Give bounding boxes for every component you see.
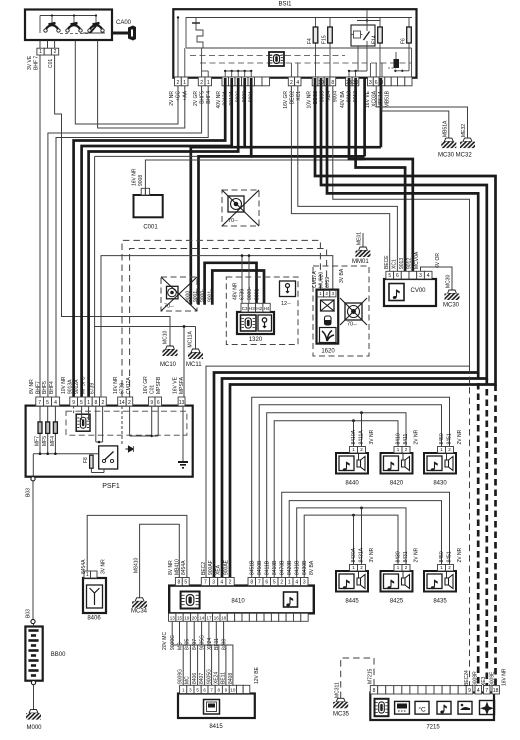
svg-text:8410A: 8410A	[351, 429, 357, 444]
svg-text:8430: 8430	[433, 481, 447, 487]
svg-text:BSI1: BSI1	[278, 2, 292, 8]
svg-text:8V NR: 8V NR	[29, 379, 35, 394]
unit 1320	[237, 312, 274, 334]
svg-text:18: 18	[221, 615, 227, 620]
svg-text:F4: F4	[307, 38, 313, 44]
wire +CC : CA00 to BSI1	[75, 41, 178, 124]
svg-text:2V NR: 2V NR	[457, 429, 463, 444]
svg-text:9000-: 9000-	[200, 289, 206, 302]
svg-text:7: 7	[258, 580, 261, 586]
svg-text:XC1: XC1	[296, 91, 302, 101]
svg-text:1: 1	[183, 80, 186, 86]
svg-text:70--: 70--	[347, 322, 357, 328]
fuse F14 in BSI1	[379, 18, 381, 49]
svg-text:2: 2	[200, 80, 203, 86]
svg-text:CA00: CA00	[116, 20, 132, 26]
svg-text:3: 3	[212, 580, 215, 586]
ground MC34	[135, 598, 144, 602]
svg-text:MPSFB: MPSFB	[156, 376, 162, 394]
svg-text:6V OR: 6V OR	[435, 253, 441, 268]
wire B03 PSF1 to battery BB00	[32, 481, 34, 620]
svg-text:M000: M000	[27, 725, 43, 731]
speaker 8440	[336, 453, 368, 474]
svg-text:6: 6	[396, 273, 399, 279]
svg-text:16V NR: 16V NR	[113, 376, 119, 394]
svg-text:8420B: 8420B	[287, 560, 293, 575]
wire 9000 continuation (thick)	[191, 78, 245, 305]
svg-text:12--: 12--	[281, 301, 291, 307]
svg-text:7215: 7215	[426, 725, 440, 731]
svg-text:1: 1	[39, 49, 42, 55]
8410 top pins mid	[201, 578, 209, 586]
svg-text:F8: F8	[83, 457, 89, 463]
svg-text:5: 5	[273, 580, 276, 586]
svg-text:XE3: XE3	[481, 676, 487, 686]
wires 8410 to 8415	[172, 621, 183, 685]
8410 bottom pins	[169, 613, 176, 621]
svg-text:BEC2: BEC2	[201, 562, 207, 575]
fuse MF7	[39, 406, 41, 454]
svg-text:9000: 9000	[186, 291, 192, 302]
svg-text:9008: 9008	[138, 175, 144, 186]
unit 1620	[317, 290, 339, 344]
svg-text:9001: 9001	[193, 291, 199, 302]
svg-text:2V NR: 2V NR	[169, 91, 175, 106]
svg-text:H4: H4	[264, 306, 270, 311]
svg-text:8450B: 8450B	[257, 560, 263, 575]
dashed wire M7215 to ground MC35	[341, 658, 374, 698]
svg-text:+CC: +CC	[176, 91, 182, 102]
wire 8430B to 8435 pin1	[289, 501, 441, 578]
svg-text:70--: 70--	[228, 218, 238, 224]
svg-text:BB00: BB00	[51, 652, 66, 658]
svg-text:2V NR: 2V NR	[457, 547, 463, 562]
svg-text:4: 4	[220, 580, 223, 586]
svg-text:4: 4	[477, 688, 480, 694]
speaker 8435	[424, 571, 456, 592]
svg-text:9001-: 9001-	[207, 289, 213, 302]
diode in PSF1	[125, 446, 133, 452]
dashed wire CM17A PSF1 to 1620	[122, 240, 320, 397]
car radio 8410	[169, 586, 314, 614]
svg-text:H2: H2	[256, 306, 262, 311]
display unit 8415	[178, 694, 255, 719]
svg-text:M8410: M8410	[133, 557, 139, 573]
svg-text:2: 2	[128, 400, 131, 406]
svg-text:8: 8	[177, 580, 180, 586]
svg-text:8410: 8410	[396, 433, 402, 444]
BSI1 pin group 16V VE	[368, 77, 374, 86]
svg-text:MPSFC: MPSFC	[81, 376, 87, 394]
svg-text:2: 2	[54, 49, 57, 55]
svg-text:16: 16	[214, 615, 220, 620]
svg-text:16V GR: 16V GR	[283, 91, 289, 109]
horn option box 70 left (crossed out)	[161, 277, 197, 311]
svg-text:8450: 8450	[439, 433, 445, 444]
wire 8450B to 8430 pin1	[259, 405, 441, 578]
svg-text:B03: B03	[26, 488, 32, 497]
connector box C001	[134, 195, 163, 217]
wire XC1 BSI1 to CV00 pin 6	[298, 86, 398, 271]
BSI1 pin group BHF	[198, 77, 205, 86]
svg-text:8411B: 8411B	[265, 560, 271, 575]
svg-text:10V NR: 10V NR	[307, 91, 313, 109]
svg-text:9: 9	[150, 400, 153, 406]
svg-text:F15: F15	[322, 35, 328, 44]
svg-text:6: 6	[375, 80, 378, 86]
wire 6739 PSF1 to 1620 and 1320	[101, 256, 333, 397]
relay in BSI1	[351, 25, 375, 46]
svg-text:9: 9	[72, 400, 75, 406]
horn option box 70 upper (crossed out)	[222, 190, 259, 226]
wire BHF4 BSI1 to PSF1 pin 4	[56, 86, 208, 397]
BSI1 internal link symbol	[196, 18, 203, 49]
svg-text:8440: 8440	[345, 481, 359, 487]
wire 9013 BSI1 to CV00 (thick)	[349, 78, 413, 271]
svg-text:MC: MC	[185, 676, 191, 684]
svg-text:MC30 MC32: MC30 MC32	[438, 153, 472, 159]
svg-text:5: 5	[184, 580, 187, 586]
ignition switch CA00	[25, 10, 112, 41]
wire 8420B to 8425/8445 pin1	[304, 515, 398, 577]
svg-text:48V NR: 48V NR	[233, 282, 239, 300]
stub wires 9000- 9001- to 1320	[205, 263, 257, 305]
7215 pin row	[370, 686, 377, 694]
8410 music note symbol	[284, 592, 298, 607]
ground MC30 top	[444, 138, 453, 142]
svg-text:8450: 8450	[439, 551, 445, 562]
BSI1 internal pin wires	[225, 70, 251, 72]
svg-text:M7215: M7215	[368, 668, 374, 684]
svg-text:MF4: MF4	[50, 436, 56, 446]
svg-text:8454A: 8454A	[81, 559, 87, 574]
8410 IC symbol	[181, 592, 200, 609]
key reader box 12	[280, 281, 296, 297]
wire BHF5 BSI1 to PSF1 pin 5	[48, 86, 202, 397]
svg-text:18: 18	[493, 688, 499, 694]
svg-text:CM17A: CM17A	[126, 377, 132, 394]
svg-text:3V BA: 3V BA	[339, 268, 345, 283]
svg-text:5: 5	[80, 400, 83, 406]
ground MC30 mid	[448, 290, 457, 294]
svg-text:MC30: MC30	[446, 274, 452, 288]
svg-text:6: 6	[157, 400, 160, 406]
svg-text:1620: 1620	[321, 349, 335, 355]
svg-text:20V MC: 20V MC	[162, 632, 168, 650]
svg-text:MC10: MC10	[160, 362, 177, 368]
svg-text:9005G: 9005G	[206, 669, 212, 684]
svg-text:8431B: 8431B	[295, 560, 301, 575]
wire BHF7 : CA00 pin1 down to PSF1 pin 7	[39, 55, 41, 397]
svg-text:ME01: ME01	[357, 232, 363, 245]
BSI1 pin group 10V NR	[312, 77, 318, 86]
svg-text:4: 4	[427, 273, 430, 279]
svg-text:BEC24: BEC24	[464, 670, 470, 686]
wire MB51B to ground MC32	[382, 86, 449, 138]
svg-text:1: 1	[207, 80, 210, 86]
8410 top pins right	[248, 578, 256, 586]
svg-text:2V NR: 2V NR	[414, 547, 420, 562]
svg-text:16V NR: 16V NR	[502, 668, 508, 686]
wire 8431B to 8435 pin2	[282, 492, 450, 577]
fuse box PSF1	[26, 406, 193, 477]
horn unit CV00	[384, 279, 436, 306]
dashed wire MU020 PSF1 to 1620	[130, 249, 327, 398]
svg-text:BEC2: BEC2	[290, 91, 296, 104]
svg-text:C01: C01	[48, 59, 54, 68]
svg-text:19: 19	[184, 615, 190, 620]
wire 9006 BSI1 to PSF1 pin 1 (thick)	[89, 78, 239, 402]
svg-text:9009G: 9009G	[178, 669, 184, 684]
svg-text:8V BA: 8V BA	[309, 560, 315, 575]
svg-text:8435: 8435	[433, 599, 447, 605]
svg-text:9004: 9004	[333, 91, 339, 102]
svg-text:2V GR: 2V GR	[193, 91, 199, 106]
svg-text:C01: C01	[150, 385, 156, 394]
svg-text:8410: 8410	[231, 599, 245, 605]
svg-text:C3: C3	[242, 306, 248, 311]
svg-text:16V GR: 16V GR	[143, 376, 149, 394]
svg-text:8: 8	[331, 80, 334, 86]
wire 8451B to 8430 pin2	[252, 397, 450, 577]
svg-text:16V VE: 16V VE	[173, 376, 179, 394]
BSI1 pin group 40V NR	[222, 77, 229, 86]
svg-text:8451: 8451	[447, 433, 453, 444]
svg-text:MC11: MC11	[186, 362, 202, 368]
svg-text:9013A: 9013A	[68, 379, 74, 394]
PSF1 internal wires	[33, 453, 98, 455]
svg-text:9: 9	[468, 688, 471, 694]
svg-text:9013: 9013	[399, 258, 405, 269]
svg-text:1: 1	[87, 400, 90, 406]
battery BB00	[25, 627, 42, 681]
svg-text:8470B: 8470B	[280, 560, 286, 575]
svg-text:9012A: 9012A	[74, 379, 80, 394]
svg-text:14: 14	[199, 615, 205, 620]
dashed boundary around 1320	[226, 277, 298, 345]
BSI1 IC symbol	[269, 52, 284, 66]
svg-text:BHF 7: BHF 7	[34, 56, 40, 70]
ground MM01	[359, 247, 368, 251]
wire 8410B to 8420/8440 pin1	[274, 421, 398, 578]
svg-text:CV00: CV00	[410, 288, 426, 294]
svg-text:XE24: XE24	[214, 672, 220, 684]
svg-text:MF7: MF7	[35, 436, 41, 446]
svg-text:MU020: MU020	[319, 272, 325, 288]
wire 9005 right bundle (thick)	[214, 78, 478, 582]
BSI1 pin group 16V GR	[288, 77, 294, 86]
svg-text:900AE: 900AE	[224, 559, 230, 575]
svg-text:10: 10	[230, 688, 236, 693]
svg-text:16V NR: 16V NR	[132, 168, 138, 186]
svg-text:1: 1	[288, 580, 291, 586]
svg-text:8430A: 8430A	[351, 547, 357, 562]
svg-text:8: 8	[94, 400, 97, 406]
svg-text:MC: MC	[177, 642, 183, 650]
svg-text:17: 17	[206, 615, 212, 620]
svg-text:2: 2	[102, 400, 105, 406]
svg-text:MB51B: MB51B	[385, 90, 391, 107]
speaker 8425	[381, 571, 413, 592]
8410 top pins left	[175, 578, 182, 586]
svg-text:XEA: XEA	[216, 564, 222, 575]
svg-text:8408: 8408	[228, 673, 234, 684]
svg-text:9009E: 9009E	[490, 671, 496, 686]
svg-text:BHF5: BHF5	[200, 91, 206, 104]
svg-text:9009R: 9009R	[473, 671, 479, 686]
wire MPSF ground link	[95, 155, 199, 157]
svg-text:4: 4	[296, 80, 299, 86]
svg-text:2: 2	[290, 80, 293, 86]
svg-text:8430: 8430	[396, 551, 402, 562]
PSF1 internal ground	[182, 406, 184, 461]
BSI1 internal dashed lines	[190, 55, 345, 57]
svg-text:8411: 8411	[403, 434, 409, 445]
svg-text:70--: 70--	[164, 304, 174, 310]
svg-text:2V NR: 2V NR	[414, 429, 420, 444]
svg-text:8431: 8431	[403, 551, 409, 562]
svg-text:3: 3	[369, 80, 372, 86]
wire rail inside CA00	[40, 15, 96, 17]
wire 9004 right bundle (thick)	[230, 78, 496, 582]
PSF1 internal IC box	[76, 414, 90, 431]
BSI1 pin group 40V BA	[346, 77, 353, 86]
svg-text:13: 13	[179, 400, 185, 406]
svg-text:8454A: 8454A	[181, 560, 187, 575]
wire 9012 BSI1 to CV00 (thick)	[356, 78, 406, 271]
svg-text:BHF5: BHF5	[42, 381, 48, 394]
svg-text:8451: 8451	[447, 551, 453, 562]
svg-text:15: 15	[177, 615, 183, 620]
svg-text:MF5: MF5	[42, 436, 48, 446]
wire MB51A to ground MC30	[376, 86, 467, 138]
svg-text:6: 6	[265, 580, 268, 586]
svg-text:20: 20	[192, 615, 198, 620]
wire 9012A BSI1 to PSF1 pin 5b (thick)	[82, 78, 232, 402]
svg-text:BE11: BE11	[221, 672, 227, 684]
svg-text:C001: C001	[143, 225, 158, 231]
svg-text:8425: 8425	[390, 599, 404, 605]
horn option box 70 in 1620 (crossed out)	[345, 303, 362, 320]
svg-text:MC34: MC34	[131, 609, 148, 615]
svg-text:MCV0A: MCV0A	[414, 251, 420, 269]
svg-text:4: 4	[54, 400, 57, 406]
BSI1 inner border	[186, 18, 412, 49]
wire BEC2b right bundle (thin)	[206, 86, 470, 578]
wire 9001 continuation (thick)	[199, 78, 252, 305]
svg-text:PSF1: PSF1	[102, 483, 120, 490]
fuse MF5	[47, 406, 49, 454]
svg-text:2: 2	[280, 580, 283, 586]
svg-text:900AF: 900AF	[208, 560, 214, 575]
speaker 8430	[424, 453, 456, 474]
svg-text:3V NR: 3V NR	[369, 429, 375, 444]
BSI1 pin group 2V NR	[175, 77, 182, 86]
wire XE right bundle (thick)	[222, 78, 487, 582]
wire 8454A aerial to 8410	[87, 515, 187, 577]
svg-text:F6: F6	[401, 38, 407, 44]
fuse MF4	[54, 406, 56, 454]
svg-text:8407: 8407	[199, 673, 205, 684]
key symbol at CA00	[112, 32, 128, 35]
svg-text:BHF7: BHF7	[36, 381, 42, 394]
svg-text:2: 2	[229, 580, 232, 586]
BSI1 internal component	[394, 59, 400, 68]
svg-text:+AA: +AA	[183, 90, 189, 100]
screened cable to 7215 (dashed bundle)	[469, 366, 471, 689]
svg-text:4: 4	[295, 580, 298, 586]
svg-text:14: 14	[119, 400, 125, 406]
ground MC10	[166, 346, 175, 350]
svg-text:9009G: 9009G	[170, 635, 176, 650]
svg-text:40V BA: 40V BA	[340, 90, 346, 108]
svg-text:3V NR: 3V NR	[101, 559, 107, 574]
control unit BSI1	[173, 9, 416, 78]
svg-text:BHF4: BHF4	[49, 381, 55, 394]
svg-text:3V NR: 3V NR	[369, 547, 375, 562]
svg-text:MC311: MC311	[334, 682, 340, 698]
svg-text:6739: 6739	[240, 289, 246, 300]
svg-text:MC30: MC30	[443, 303, 460, 309]
svg-text:8405: 8405	[185, 639, 191, 650]
svg-text:9001-: 9001-	[255, 287, 261, 300]
svg-text:3V VE: 3V VE	[27, 55, 33, 70]
wire CA00 contacts to connector	[39, 41, 41, 49]
wire 8421B to 8425/8445 pin2	[297, 508, 406, 578]
speaker 8420	[381, 453, 413, 474]
wire MCV0A to ground MC30	[421, 267, 453, 290]
svg-text:MC11A: MC11A	[188, 331, 194, 348]
wire MB410 to ground MC34	[140, 524, 180, 598]
svg-text:MC35: MC35	[333, 712, 350, 718]
svg-text:8: 8	[250, 580, 253, 586]
7215 icons	[375, 699, 389, 716]
svg-text:8: 8	[373, 688, 376, 694]
ground MC32 top	[463, 138, 472, 142]
svg-text:XC1: XC1	[392, 259, 398, 269]
svg-text:6739: 6739	[325, 277, 331, 288]
connector C001a below CA00	[37, 48, 44, 55]
PSF1 pin row	[36, 397, 44, 406]
svg-text:8420: 8420	[390, 481, 404, 487]
svg-text:5: 5	[46, 400, 49, 406]
svg-text:8406: 8406	[192, 673, 198, 684]
svg-text:1320: 1320	[249, 337, 263, 343]
svg-text:ME32: ME32	[461, 124, 467, 137]
wire 8411B to 8420/8440 pin2	[267, 413, 406, 578]
dashed boundary around 1620	[313, 266, 369, 356]
svg-text:B03: B03	[26, 609, 32, 618]
svg-text:7: 7	[204, 580, 207, 586]
svg-text:8V NR: 8V NR	[168, 560, 174, 575]
ground MC11	[191, 349, 200, 353]
relay F8 in PSF1	[99, 446, 118, 469]
svg-text:MPSFA: MPSFA	[179, 376, 185, 394]
svg-text:8408: 8408	[221, 639, 227, 650]
svg-text:8451B: 8451B	[250, 560, 256, 575]
svg-text:13: 13	[170, 615, 176, 620]
aerial 8406	[83, 578, 106, 613]
svg-text:12V BE: 12V BE	[254, 666, 260, 684]
svg-text:9012: 9012	[407, 258, 413, 269]
ground M000	[33, 685, 35, 710]
svg-text:3: 3	[303, 580, 306, 586]
svg-text:MC10: MC10	[163, 330, 169, 344]
wire 9008 from C001	[145, 160, 364, 188]
svg-text:8411A: 8411A	[359, 430, 365, 445]
PSF1 internal dashed box	[66, 411, 187, 435]
svg-text:8431A: 8431A	[359, 547, 365, 562]
